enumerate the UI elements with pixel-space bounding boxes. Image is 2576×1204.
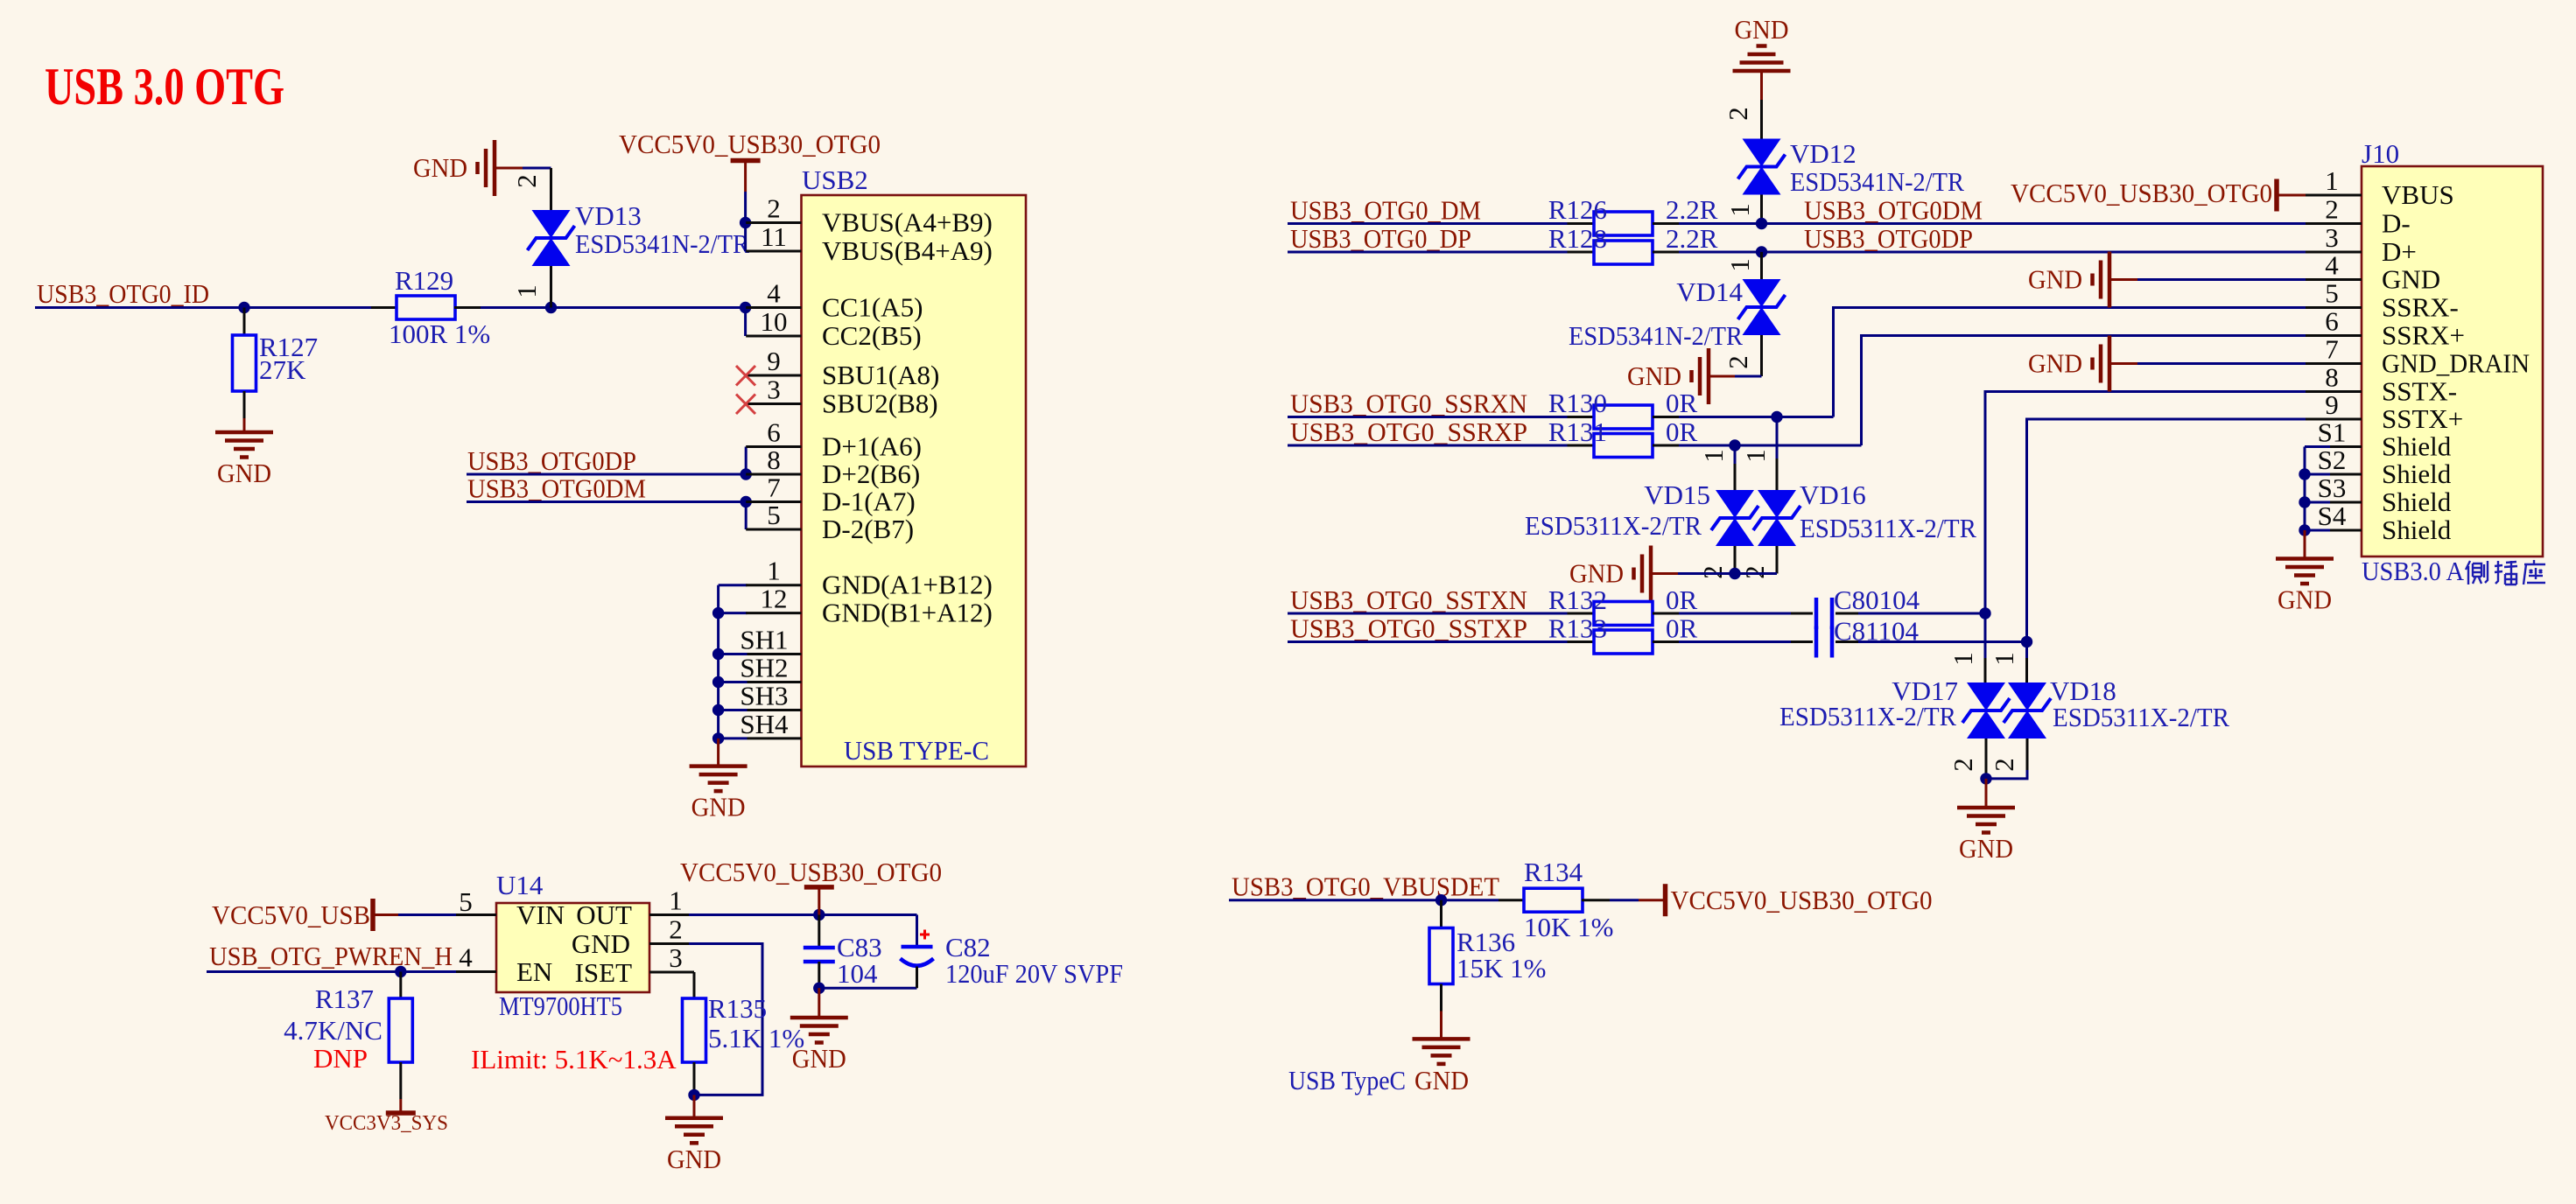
svg-text:1: 1 <box>1698 449 1729 463</box>
svg-text:ESD5311X-2/TR: ESD5311X-2/TR <box>1779 701 1956 731</box>
svg-text:GND: GND <box>1414 1065 1469 1095</box>
pin 1 of VD16 <box>1740 417 1777 491</box>
svg-text:USB3_OTG0_DM: USB3_OTG0_DM <box>1290 195 1481 226</box>
wire R135 to ground <box>693 1095 696 1117</box>
svg-text:GND_DRAIN: GND_DRAIN <box>2382 348 2530 379</box>
pin 8 D+2(B6) of USB2 <box>746 444 920 489</box>
resistor R131 <box>1568 434 1680 458</box>
pin 6 SSRX+ of J10 <box>2306 306 2465 351</box>
diode VD13 <box>528 210 575 266</box>
pin 1 of VD14 <box>1724 252 1762 279</box>
svg-text:VBUS(A4+B9): VBUS(A4+B9) <box>822 207 993 238</box>
svg-text:USB3_OTG0DM: USB3_OTG0DM <box>467 473 646 504</box>
pin 11 VBUS(B4+A9) of USB2 <box>746 221 993 266</box>
svg-text:2: 2 <box>1723 355 1753 369</box>
svg-text:1: 1 <box>1724 203 1755 217</box>
junction dot <box>395 966 406 977</box>
power bar VCC5V0_USB <box>370 899 376 931</box>
wire USB3_OTG0DM <box>467 500 746 503</box>
wire bracket to ground <box>717 738 719 766</box>
wire R136 to ground <box>1440 1011 1442 1039</box>
svg-text:USB2: USB2 <box>802 164 868 195</box>
pin 9 SBU1(A8) of USB2 <box>746 346 939 390</box>
svg-text:7: 7 <box>767 472 781 503</box>
junction dot <box>1756 218 1767 229</box>
wire C80 to junction <box>1858 612 1985 615</box>
svg-text:4: 4 <box>459 942 473 973</box>
pin S1 Shield of J10 <box>2306 417 2452 462</box>
wire shield bracket <box>2305 447 2330 531</box>
svg-text:GND: GND <box>1735 14 1789 45</box>
svg-text:8: 8 <box>2325 362 2339 393</box>
svg-text:USB TypeC: USB TypeC <box>1288 1065 1412 1095</box>
junction dot <box>545 302 557 313</box>
svg-text:1: 1 <box>669 885 683 916</box>
hanzi ce <box>2466 561 2488 584</box>
svg-text:1: 1 <box>1989 652 2019 666</box>
wire OUT net <box>689 913 917 916</box>
svg-text:OUT: OUT <box>576 899 632 930</box>
wire C81 to junction <box>1858 640 2027 643</box>
svg-text:100R 1%: 100R 1% <box>389 318 490 349</box>
svg-text:SH3: SH3 <box>740 681 788 711</box>
svg-text:GND: GND <box>2278 584 2332 615</box>
svg-text:GND: GND <box>2382 264 2440 295</box>
svg-text:VBUS: VBUS <box>2382 179 2454 210</box>
power bar VCC5V0_USB30_OTG0 <box>731 158 761 164</box>
svg-text:R133: R133 <box>1548 613 1607 644</box>
wire R134 to power <box>1610 899 1666 901</box>
wire USB3_OTG0DP to J10 D+ <box>1679 251 2306 254</box>
hanzi cha <box>2495 561 2517 584</box>
svg-text:VD16: VD16 <box>1800 479 1866 510</box>
junction dot <box>813 983 825 994</box>
junction dot <box>712 704 724 716</box>
svg-text:ESD5311X-2/TR: ESD5311X-2/TR <box>1525 510 1702 541</box>
svg-text:0R: 0R <box>1666 416 1698 447</box>
junction dot <box>1771 411 1782 423</box>
pin 3 SBU2(B8) of USB2 <box>746 374 937 419</box>
svg-text:SSTX+: SSTX+ <box>2382 403 2463 434</box>
wire riser to J10 SSRX+ <box>1862 336 2306 446</box>
svg-text:6: 6 <box>767 417 781 448</box>
svg-text:USB3_OTG0_SSTXP: USB3_OTG0_SSTXP <box>1290 613 1527 644</box>
junction dot <box>740 217 751 228</box>
svg-text:VCC5V0_USB30_OTG0: VCC5V0_USB30_OTG0 <box>2011 178 2272 208</box>
pin 6 D+1(A6) of USB2 <box>746 417 922 462</box>
svg-text:R137: R137 <box>315 983 374 1014</box>
comment USB TypeC GND <box>1288 1065 1469 1095</box>
resistor R134 <box>1499 888 1610 912</box>
pin 5 SSRX- of J10 <box>2306 278 2459 323</box>
svg-text:R128: R128 <box>1548 223 1607 254</box>
wire SH to bracket <box>719 653 748 655</box>
pin 1 OUT of U14 <box>576 885 689 931</box>
svg-text:S4: S4 <box>2318 500 2347 531</box>
ground under R135 <box>665 1118 723 1174</box>
ground at VD15 VD16 <box>1569 546 1651 602</box>
svg-text:VIN: VIN <box>516 899 565 930</box>
svg-text:VBUS(B4+A9): VBUS(B4+A9) <box>822 235 993 266</box>
svg-text:Shield: Shield <box>2382 486 2452 517</box>
junction dot <box>688 1089 699 1101</box>
svg-text:GND: GND <box>2028 348 2082 379</box>
wire bracket to ground <box>2304 530 2306 559</box>
pin S4 Shield of J10 <box>2306 500 2452 545</box>
svg-text:VCC5V0_USB: VCC5V0_USB <box>212 899 370 930</box>
diode VD14 <box>1738 279 1786 335</box>
pin SH4 of USB2 <box>740 709 801 739</box>
junction dot <box>2299 496 2310 507</box>
resistor R133 <box>1568 630 1680 654</box>
wire riser to J10 SSTX- <box>1985 392 2306 614</box>
pin 1 of VD13 <box>511 266 551 308</box>
svg-text:2: 2 <box>1989 758 2019 772</box>
svg-text:D-2(B7): D-2(B7) <box>822 514 914 544</box>
ground under R127 <box>215 432 273 488</box>
svg-text:1: 1 <box>1740 449 1771 463</box>
pin S3 Shield of J10 <box>2306 472 2452 517</box>
ground left of VD13 <box>413 140 495 196</box>
wire pin2 to pin11 <box>744 223 747 252</box>
svg-text:GND: GND <box>1627 360 1681 391</box>
svg-text:R134: R134 <box>1524 857 1583 887</box>
svg-text:USB3.0 A: USB3.0 A <box>2362 556 2465 586</box>
svg-text:R132: R132 <box>1548 584 1607 615</box>
pin 8 SSTX- of J10 <box>2306 362 2457 407</box>
wire USB3_OTG0_DP <box>1288 251 1568 254</box>
junction dot <box>238 302 249 313</box>
svg-text:104: 104 <box>837 958 878 989</box>
svg-text:5: 5 <box>2325 278 2339 309</box>
resistor R129 <box>371 296 481 319</box>
svg-text:R130: R130 <box>1548 388 1607 418</box>
pin 2 of VD14 <box>1723 335 1762 376</box>
diode VD15 <box>1711 490 1758 546</box>
svg-text:Shield: Shield <box>2382 431 2452 462</box>
capacitor C83 <box>804 915 835 989</box>
svg-text:ESD5341N-2/TR: ESD5341N-2/TR <box>575 228 749 259</box>
wire R129 to USB2 CC1 <box>481 306 746 309</box>
pin 2 GND of U14 <box>572 914 689 960</box>
svg-text:S2: S2 <box>2318 444 2347 475</box>
junction dot <box>1980 773 1991 784</box>
svg-text:Shield: Shield <box>2382 458 2452 489</box>
svg-text:2: 2 <box>511 174 542 188</box>
svg-text:ESD5311X-2/TR: ESD5311X-2/TR <box>1800 513 1976 543</box>
wire to ground <box>243 418 246 432</box>
svg-text:SSRX-: SSRX- <box>2382 292 2459 323</box>
hanzi zuo <box>2523 560 2545 584</box>
connector USB2 body <box>802 195 1027 766</box>
svg-text:SSRX+: SSRX+ <box>2382 320 2465 351</box>
wire USB3_OTG0_SSRXP <box>1288 444 1568 447</box>
wire USB3_OTG0_SSTXN <box>1288 612 1568 615</box>
svg-text:D+: D+ <box>2382 236 2417 267</box>
svg-text:3: 3 <box>767 374 781 405</box>
wire pin4 to pin10 <box>744 308 747 337</box>
svg-text:15K 1%: 15K 1% <box>1456 953 1546 983</box>
wire USB_OTG_PWREN_H <box>207 970 456 973</box>
wire pin12 to bracket <box>719 612 748 614</box>
svg-text:USB3_OTG0_ID: USB3_OTG0_ID <box>37 278 209 309</box>
svg-text:3: 3 <box>2325 222 2339 253</box>
svg-text:Shield: Shield <box>2382 514 2452 545</box>
svg-text:USB3_OTG0DM: USB3_OTG0DM <box>1804 195 1983 226</box>
svg-text:5: 5 <box>459 886 473 917</box>
svg-text:10: 10 <box>761 306 788 337</box>
wire SH to bracket <box>719 737 748 739</box>
pin 9 SSTX+ of J10 <box>2306 389 2463 434</box>
ground at J10 pin7 <box>2028 336 2109 392</box>
wire GND bracket vertical <box>717 585 719 738</box>
svg-text:USB3_OTG0_VBUSDET: USB3_OTG0_VBUSDET <box>1232 871 1499 902</box>
ground under C83 <box>790 1018 848 1074</box>
connector J10 body <box>2362 166 2543 556</box>
wire pin1 to bracket <box>719 584 748 586</box>
ground USB TypeC GND <box>1413 1039 1470 1064</box>
svg-text:D+2(B6): D+2(B6) <box>822 458 920 489</box>
power bar VCC5V0_USB30_OTG0 mid <box>804 885 834 890</box>
svg-text:1: 1 <box>511 284 542 298</box>
svg-text:USB3_OTG0_DP: USB3_OTG0_DP <box>1290 223 1471 254</box>
pin 5 D-2(B7) of USB2 <box>746 500 914 544</box>
svg-text:SH4: SH4 <box>740 709 789 739</box>
pin 4 CC1(A5) of USB2 <box>746 278 923 323</box>
svg-text:0R: 0R <box>1666 388 1698 418</box>
wire USB3_OTG0_SSRXN <box>1288 416 1568 418</box>
power bar VCC5V0_USB30_OTG0 right <box>1663 884 1668 916</box>
svg-text:DNP: DNP <box>313 1043 368 1074</box>
svg-text:2: 2 <box>669 914 683 945</box>
svg-text:USB3_OTG0_SSTXN: USB3_OTG0_SSTXN <box>1290 584 1527 615</box>
junction dot <box>2299 524 2310 535</box>
wire ground to VD13 pin2 <box>495 167 551 170</box>
pin 1 of VD18 <box>1989 642 2027 683</box>
wire USB3_OTG0DP <box>467 473 746 476</box>
ground under USB2 <box>690 766 748 822</box>
pin 7 D-1(A7) of USB2 <box>746 472 916 517</box>
svg-text:GND: GND <box>2028 264 2082 295</box>
ground under VD17 VD18 <box>1957 808 2015 864</box>
svg-text:8: 8 <box>767 444 781 475</box>
svg-text:12: 12 <box>761 584 788 614</box>
svg-text:USB3_OTG0_SSRXP: USB3_OTG0_SSRXP <box>1290 416 1527 447</box>
polarity + of C82 <box>920 930 930 940</box>
capacitor C81 <box>1791 626 1858 658</box>
junction dot <box>712 648 724 660</box>
svg-text:9: 9 <box>2325 389 2339 420</box>
svg-text:VD12: VD12 <box>1790 138 1857 169</box>
ground at VD14 <box>1627 348 1709 404</box>
wire SH to bracket <box>719 681 748 683</box>
wire R137 to power <box>399 1099 402 1113</box>
svg-text:4: 4 <box>2325 250 2339 281</box>
svg-text:10K 1%: 10K 1% <box>1524 912 1613 942</box>
pin 12 GND(B1+A12) of USB2 <box>746 584 993 628</box>
svg-text:2: 2 <box>767 193 781 224</box>
svg-text:3: 3 <box>669 942 683 973</box>
wire VCC5V0_USB to VIN <box>373 913 456 916</box>
resistor R130 <box>1568 405 1680 429</box>
svg-text:SBU1(A8): SBU1(A8) <box>822 360 939 390</box>
svg-text:GND: GND <box>413 152 467 183</box>
wire SSRXP to riser <box>1679 444 1862 447</box>
resistor R136 <box>1429 900 1453 1011</box>
wire SH to bracket <box>719 709 748 711</box>
svg-text:VD15: VD15 <box>1644 479 1710 510</box>
wire to ground <box>818 988 820 1018</box>
svg-text:GND: GND <box>572 928 630 959</box>
wire VD15 VD16 to ground <box>1651 572 1777 575</box>
svg-text:1: 1 <box>1948 652 1978 666</box>
svg-text:GND: GND <box>217 458 271 488</box>
svg-text:ILimit: 5.1K~1.3A: ILimit: 5.1K~1.3A <box>471 1044 677 1074</box>
junction dot <box>712 676 724 688</box>
junction dot <box>712 607 724 619</box>
svg-text:C80104: C80104 <box>1834 584 1920 615</box>
svg-text:MT9700HT5: MT9700HT5 <box>499 990 622 1021</box>
svg-text:VD14: VD14 <box>1676 276 1743 307</box>
resistor R126 <box>1568 212 1680 235</box>
svg-text:J10: J10 <box>2362 138 2399 169</box>
svg-text:2: 2 <box>2325 194 2339 225</box>
svg-text:VCC5V0_USB30_OTG0: VCC5V0_USB30_OTG0 <box>1671 885 1933 915</box>
svg-text:ESD5341N-2/TR: ESD5341N-2/TR <box>1569 320 1743 351</box>
junction dot <box>1435 894 1447 906</box>
junction dot <box>741 496 752 507</box>
svg-text:ISET: ISET <box>575 957 633 988</box>
svg-text:VD13: VD13 <box>575 200 642 231</box>
resistor R132 <box>1568 602 1680 626</box>
svg-text:USB_OTG_PWREN_H: USB_OTG_PWREN_H <box>209 941 453 971</box>
svg-text:SH2: SH2 <box>740 653 788 683</box>
svg-text:2: 2 <box>1948 758 1978 772</box>
ground at J10 pin4 <box>2028 252 2109 308</box>
svg-text:EN: EN <box>516 956 552 987</box>
junction dot <box>813 909 825 920</box>
svg-text:GND: GND <box>691 792 746 822</box>
no-connect X pin 3 <box>736 395 755 415</box>
svg-text:5: 5 <box>767 500 781 530</box>
resistor R128 <box>1568 241 1680 264</box>
svg-text:0R: 0R <box>1666 613 1698 644</box>
svg-text:2: 2 <box>1723 107 1753 121</box>
svg-text:2.2R: 2.2R <box>1666 223 1718 254</box>
svg-text:USB3_OTG0DP: USB3_OTG0DP <box>467 445 636 476</box>
pin 2 of VD17 <box>1948 738 1986 779</box>
junction dot <box>2299 468 2310 479</box>
pin 1 VBUS of J10 <box>2306 165 2454 210</box>
svg-text:USB TYPE-C: USB TYPE-C <box>844 735 989 766</box>
resistor R127 <box>233 308 256 419</box>
svg-text:4.7K/NC: 4.7K/NC <box>284 1015 383 1046</box>
capacitor C82 <box>901 915 934 989</box>
wire C83 bottom to C82 bottom <box>819 987 917 990</box>
wire VD18 to VD17 ground node <box>1986 770 2027 779</box>
pin S2 Shield of J10 <box>2306 444 2452 489</box>
power bar at J10 pin1 <box>2274 179 2279 212</box>
pin SH1 of USB2 <box>740 625 801 655</box>
svg-text:S3: S3 <box>2318 472 2347 503</box>
svg-text:S1: S1 <box>2318 417 2347 448</box>
wire USB3_OTG0_VBUSDET <box>1229 899 1499 901</box>
diode VD12 <box>1738 139 1786 195</box>
svg-text:1: 1 <box>767 556 781 586</box>
pin 2 VBUS(A4+B9) of USB2 <box>746 193 993 238</box>
svg-text:6: 6 <box>2325 306 2339 337</box>
resistor R135 <box>683 972 706 1095</box>
junction dot <box>741 468 752 479</box>
pin 4 GND of J10 <box>2306 250 2440 295</box>
svg-text:SH1: SH1 <box>740 625 788 655</box>
pin 2 of VD18 <box>1989 738 2027 772</box>
wire U14 GND route <box>689 944 762 1095</box>
wire USB3_OTG0_DM <box>1288 222 1568 225</box>
diode VD17 <box>1962 682 2010 738</box>
svg-text:CC1(A5): CC1(A5) <box>822 292 923 323</box>
pin 10 CC2(B5) of USB2 <box>746 306 921 351</box>
svg-text:U14: U14 <box>496 870 544 900</box>
wire VD14 to ground <box>1709 375 1762 378</box>
wire R133 to C81 <box>1679 640 1791 643</box>
resistor R137 <box>389 972 412 1100</box>
svg-text:VCC3V3_SYS: VCC3V3_SYS <box>325 1112 448 1135</box>
wire power bar down <box>818 887 820 915</box>
wire USB3_OTG0_SSTXP <box>1288 640 1568 643</box>
svg-text:R126: R126 <box>1548 194 1607 225</box>
pin 7 GND_DRAIN of J10 <box>2306 334 2530 379</box>
svg-text:CC2(B5): CC2(B5) <box>822 320 922 351</box>
pin 1 of VD17 <box>1948 613 1985 682</box>
svg-text:27K: 27K <box>259 354 306 385</box>
svg-text:USB 3.0 OTG: USB 3.0 OTG <box>45 58 284 115</box>
wire pin5 bracket <box>745 502 748 530</box>
svg-text:R129: R129 <box>395 265 453 296</box>
svg-text:GND: GND <box>1959 833 2013 864</box>
svg-text:4: 4 <box>767 278 781 309</box>
capacitor C80 <box>1791 598 1858 629</box>
junction dot <box>1756 246 1767 257</box>
pin 3 D+ of J10 <box>2306 222 2417 267</box>
wire riser to J10 SSRX- <box>1834 308 2306 417</box>
junction dot <box>740 302 751 313</box>
wire power to pin2 <box>744 161 747 223</box>
no-connect X pin 9 <box>736 366 755 386</box>
connector U14 body <box>496 903 649 992</box>
svg-text:VCC5V0_USB30_OTG0: VCC5V0_USB30_OTG0 <box>680 857 942 887</box>
pin 1 of VD15 <box>1698 445 1735 490</box>
wire ground to J10 pin7 <box>2109 362 2306 365</box>
wire pin6 bracket <box>745 447 748 475</box>
pin 3 ISET of U14 <box>575 942 694 988</box>
svg-text:GND(A1+B12): GND(A1+B12) <box>822 570 993 600</box>
svg-text:2.2R: 2.2R <box>1666 194 1718 225</box>
svg-text:120uF 20V SVPF: 120uF 20V SVPF <box>945 958 1123 989</box>
wire R132 to C80 <box>1679 612 1791 615</box>
svg-text:SBU2(B8): SBU2(B8) <box>822 388 938 419</box>
svg-text:R135: R135 <box>708 993 767 1024</box>
wire ground to VD12 <box>1760 71 1763 139</box>
junction dot <box>712 732 724 744</box>
svg-text:7: 7 <box>2325 334 2339 365</box>
svg-text:5.1K 1%: 5.1K 1% <box>708 1023 804 1053</box>
svg-text:1: 1 <box>2325 165 2339 196</box>
wire USB3_OTG0DM to J10 D- <box>1679 222 2306 225</box>
svg-text:D+1(A6): D+1(A6) <box>822 431 922 462</box>
pin SH2 of USB2 <box>740 653 801 683</box>
svg-text:9: 9 <box>767 346 781 376</box>
